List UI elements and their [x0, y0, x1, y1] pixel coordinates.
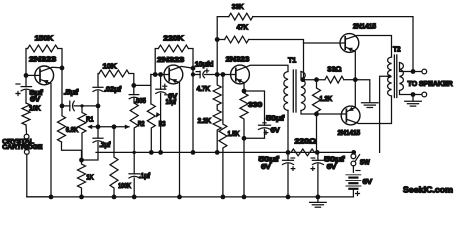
wire 50uf filter left to bus: [287, 164, 289, 197]
svg-text:10μf: 10μf: [166, 97, 177, 106]
T2 primary coil: [388, 57, 392, 96]
junction switch on rail: [351, 150, 356, 155]
wire divider to Q3 base: [216, 40, 218, 75]
50uf plus: [264, 131, 268, 135]
node Q2 collector: [191, 66, 196, 71]
wire .5uf to node A: [74, 105, 98, 107]
wire 33K left down: [217, 17, 229, 40]
wire rail to switch: [353, 152, 355, 154]
wire 10ufd to Q3 base: [205, 74, 236, 76]
node Q1 collector junction: [60, 66, 65, 71]
wire center tap to rail: [380, 76, 390, 152]
battery minus: [356, 170, 360, 172]
wire Q5 base node to 220ohm right: [316, 114, 318, 152]
wire .02uf to node A: [97, 91, 99, 106]
svg-text:6V: 6V: [261, 162, 271, 171]
wire Q3 emitter to 50uf: [244, 91, 265, 125]
wire to chassis ground speaker: [412, 95, 414, 101]
resistor 4.7K: [213, 75, 221, 106]
terminal cartridge top: [24, 134, 29, 139]
wire 10K right to .005 node: [129, 74, 134, 86]
50uf filter left minus: [291, 157, 295, 159]
Q1 emitter arrow: [43, 80, 49, 84]
svg-text:.02μf: .02μf: [104, 85, 122, 94]
R1 wiper arrow: [87, 125, 92, 130]
resistor 150K feedback: [28, 45, 58, 52]
wire T1 secondary top: [301, 72, 304, 80]
T2 secondary coil: [400, 63, 404, 91]
svg-text:2N323: 2N323: [157, 55, 184, 64]
svg-text:SeekIC.com: SeekIC.com: [403, 185, 453, 194]
wire ground bus: [27, 196, 354, 198]
wire switch to battery: [352, 166, 354, 173]
Q3 emitter lead: [236, 78, 244, 91]
ground speaker: [405, 100, 422, 102]
junction collector/10ufd: [191, 72, 195, 76]
10uf plus: [163, 84, 167, 88]
wire secondary top to speaker terminal: [400, 63, 425, 72]
capacitor 50uf first: [259, 124, 271, 126]
wire cartridge return to bus: [27, 154, 51, 197]
wire 10K left down: [98, 74, 99, 88]
junction T2 center tap: [388, 75, 391, 78]
transistor Q2 2N323: [164, 65, 183, 84]
wire Q2 base lead: [151, 74, 169, 76]
resistor 220ohm: [291, 149, 315, 156]
transistor Q3 2N323: [231, 65, 250, 84]
svg-text:TO SPEAKER: TO SPEAKER: [408, 79, 454, 88]
svg-text:220Ω: 220Ω: [295, 136, 317, 145]
wire secondary bottom to speaker terminal: [400, 91, 425, 95]
svg-text:10K: 10K: [29, 104, 41, 113]
junction 50uf filter right on bus: [316, 195, 321, 200]
wire 1uf to bus: [133, 178, 135, 197]
capacitor 10uf: [156, 88, 166, 90]
wire rail to 1uf: [133, 152, 135, 173]
svg-text:33K: 33K: [232, 2, 245, 11]
resistor 100K: [110, 127, 118, 197]
svg-text:50μf: 50μf: [266, 114, 285, 123]
switch post bottom: [351, 161, 356, 166]
resistor 47K: [225, 36, 249, 43]
Q2 emitter arrow: [172, 79, 178, 83]
T1 secondary coil: [301, 72, 305, 111]
T1 primary coil: [284, 72, 288, 111]
junction emitter bus / ground branch: [353, 77, 358, 82]
junction wiper bus / .2uf: [96, 124, 101, 129]
wire to chassis ground: [355, 80, 370, 103]
svg-text:150K: 150K: [35, 34, 55, 43]
Q1 emitter lead: [40, 79, 51, 197]
wire 47K right to T1 secondary top: [249, 40, 304, 80]
junction 1.5K on bus: [221, 195, 226, 200]
wire 220K left to Q2 base: [155, 49, 158, 75]
svg-text:330: 330: [248, 100, 262, 109]
svg-text:2N323: 2N323: [226, 55, 250, 64]
junction secondary top / Q4 base: [300, 77, 305, 82]
svg-text:1K: 1K: [86, 173, 94, 182]
junction Q2 collector on rail: [191, 150, 196, 155]
svg-text:.1μf: .1μf: [139, 171, 151, 180]
wire 47K left: [217, 39, 224, 41]
junction 1K on bus: [79, 195, 84, 200]
resistor 220K feedback: [158, 45, 188, 52]
svg-text:2N323: 2N323: [29, 55, 56, 64]
node A: [96, 104, 101, 109]
junction 50uf filter left on bus: [286, 195, 291, 200]
junction 100K on bus: [112, 195, 117, 200]
wire rail to 50uf filter right: [317, 152, 319, 160]
Q5 emitter lead: [346, 80, 355, 112]
svg-text:47K: 47K: [237, 22, 249, 31]
capacitor .5uf coupling: [69, 101, 71, 111]
junction 220ohm right / 50uf: [315, 150, 320, 155]
svg-text:R2: R2: [138, 119, 145, 128]
svg-text:T2: T2: [393, 45, 401, 54]
wire collector to 10ufd: [193, 74, 200, 76]
junction 220K on base wire: [153, 72, 158, 77]
50uf filter left plus: [291, 167, 295, 171]
wire rail to 50uf filter left: [287, 152, 289, 160]
svg-text:6V: 6V: [30, 95, 40, 104]
potentiometer R2: [130, 98, 138, 152]
wire to .005: [133, 85, 135, 94]
resistor 1.5K: [219, 75, 227, 197]
wire 10K to cartridge terminal: [25, 125, 28, 135]
capacitor 10ufd coupling: [199, 71, 201, 77]
svg-text:.5μf: .5μf: [64, 88, 79, 97]
resistor 1.2K: [313, 80, 321, 114]
wire Q4 base lead: [304, 42, 346, 44]
svg-text:R1: R1: [86, 114, 94, 123]
capacitor 8uf: [21, 86, 31, 88]
junction R1 top: [80, 104, 83, 107]
wire wiper bus: [89, 126, 129, 128]
junction 1K top / .2uf: [79, 158, 84, 163]
Q5 emitter arrow: [348, 107, 354, 111]
svg-text:6.8K: 6.8K: [66, 125, 79, 134]
Q4 collector lead: [345, 36, 391, 58]
junction feedback tap: [411, 69, 416, 74]
Q4 emitter arrow: [347, 48, 353, 52]
junction 1.2K bottom / Q5 base / 220ohm: [314, 112, 319, 117]
junction 330 on bus: [242, 195, 247, 200]
wire 50uf to 330 line: [244, 129, 265, 138]
node Q1 base: [24, 73, 29, 78]
svg-text:33Ω: 33Ω: [327, 65, 341, 74]
wire T1 secondary bottom to Q5 base: [301, 111, 346, 115]
transistor Q5 2N1415: [341, 106, 360, 125]
junction T1 primary bottom / 220ohm left: [286, 150, 291, 155]
R3 wiper arrow: [156, 112, 161, 118]
wire to 33ohm: [304, 79, 325, 81]
Q3 collector lead: [236, 65, 288, 71]
wire T1 primary bottom to rail: [287, 111, 289, 153]
wire 50uf filter right to bus: [317, 164, 319, 197]
svg-text:T1: T1: [288, 55, 296, 64]
transistor Q4 2N1415: [340, 34, 359, 53]
wire 33ohm to emitter bus: [344, 79, 356, 81]
svg-text:2.2K: 2.2K: [198, 116, 212, 125]
wire battery to bus: [352, 189, 354, 197]
wire .2uf bottom to 1K top: [82, 142, 99, 160]
wire bus to chassis ground: [317, 197, 319, 202]
svg-text:6V: 6V: [271, 126, 280, 135]
svg-text:2N1415: 2N1415: [338, 128, 361, 137]
resistor 33K feedback: [229, 13, 253, 20]
junction 10uf on rail: [158, 150, 163, 155]
wire to .2uf: [97, 127, 99, 138]
svg-text:10μfd: 10μfd: [195, 60, 214, 69]
junction 33K/47K: [215, 37, 220, 42]
junction 1.5K top: [221, 72, 226, 77]
junction 10uf on base wire: [158, 72, 163, 77]
8uf minus: [16, 83, 20, 85]
node Q3 emitter: [242, 89, 247, 94]
junction collector/6.8K/.5uf: [60, 104, 65, 109]
junction 2.2K on rail: [215, 150, 220, 155]
wire 150K right to Q1 collector: [58, 49, 62, 68]
Q3 emitter arrow: [237, 79, 243, 83]
wire .005 node to Q2 base rise: [134, 75, 151, 86]
svg-text:CARTRIDGE: CARTRIDGE: [2, 144, 42, 151]
terminal cartridge bottom: [24, 150, 29, 155]
capacitor .02uf: [93, 86, 103, 88]
wire 33K feedback from speaker: [253, 17, 413, 72]
Q2 collector lead: [169, 66, 193, 152]
ground emitter bias: [362, 102, 379, 104]
svg-text:4.7K: 4.7K: [197, 84, 211, 93]
junction speaker ground: [411, 92, 416, 97]
junction 1.2K top: [314, 77, 319, 82]
battery plus: [356, 192, 360, 196]
svg-text:220K: 220K: [163, 34, 184, 43]
wire Q1 base lead: [26, 74, 40, 76]
10ufd plus: [205, 69, 209, 73]
wire 150K left to Q1 base node: [26, 49, 28, 76]
potentiometer R1: [78, 106, 86, 160]
junction R3 on rail: [149, 150, 154, 155]
Q1 collector lead: [40, 67, 62, 106]
junction 50uf / 330: [242, 136, 247, 141]
wire node A to wiper bus: [97, 106, 99, 127]
wire collector node to .5uf: [62, 105, 70, 107]
svg-text:6V: 6V: [327, 162, 337, 171]
R2 wiper arrow: [125, 125, 130, 130]
resistor 2.2K: [213, 105, 221, 152]
junction Q2 emitter on bus: [177, 195, 182, 200]
junction 1uf on bus: [132, 195, 137, 200]
junction wiper bus / 100K: [112, 124, 117, 129]
50uf filter right minus: [311, 157, 315, 159]
wire 10uf to rail: [160, 93, 162, 152]
node .005 top: [131, 83, 136, 88]
svg-text:100K: 100K: [118, 181, 132, 190]
terminal speaker bottom: [422, 92, 427, 97]
junction Q1 emitter on bus: [49, 195, 54, 200]
transistor Q1 2N323: [35, 66, 54, 85]
ground main: [310, 201, 327, 203]
wire 6.8K bottom to 1K top: [62, 142, 82, 160]
svg-text:6V: 6V: [363, 177, 373, 186]
switch post top: [351, 154, 356, 159]
wire 8uf to 10K: [25, 91, 27, 104]
svg-text:R3: R3: [159, 119, 166, 128]
8uf plus: [16, 92, 20, 96]
resistor 10K treble: [99, 70, 129, 77]
resistor 330: [240, 91, 248, 197]
resistor 33ohm: [325, 76, 344, 83]
10uf minus: [165, 94, 169, 96]
junction R2/1uf on rail: [133, 151, 136, 154]
50uf filter right plus: [311, 167, 315, 171]
Q2 emitter lead: [169, 78, 179, 196]
wire 220K right to Q2 collector: [188, 49, 193, 69]
resistor 6.8K: [58, 106, 66, 142]
resistor 10K input: [22, 103, 30, 125]
battery 6V: [346, 174, 361, 176]
svg-text:10K: 10K: [103, 62, 118, 71]
wire -6V rail: [96, 151, 354, 153]
junction Q3 base / divider: [215, 72, 220, 77]
terminal speaker top: [422, 69, 427, 74]
Q4 emitter lead: [345, 47, 355, 80]
10ufd minus: [196, 71, 199, 73]
svg-text:1.2K: 1.2K: [320, 94, 333, 103]
svg-text:1.5K: 1.5K: [228, 129, 241, 138]
svg-text:2N1415: 2N1415: [353, 22, 376, 31]
wire base to 10uf: [160, 75, 162, 90]
potentiometer R3: [147, 75, 155, 153]
Q5 collector lead: [346, 96, 391, 124]
resistor 1K: [78, 160, 86, 197]
svg-text:SW: SW: [360, 158, 370, 167]
wire base to 8uf: [25, 75, 27, 86]
svg-text:.2μf: .2μf: [99, 140, 111, 149]
